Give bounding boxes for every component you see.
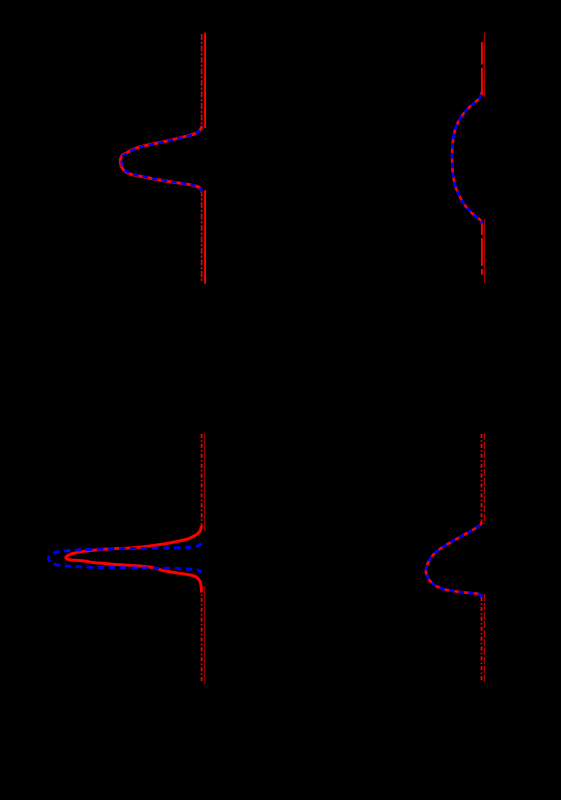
panel bottom-left: red dash-dot bright curve, left vertical lower segment [201,588,203,682]
panel top-left: red dash-dot curve, left vertical lower segment [201,191,203,283]
panel bottom-right: red solid bump curve [426,522,482,598]
panel bottom-left: red solid spike curve [66,526,202,593]
panel top-right: blue dashed bump curve [452,92,482,224]
panel bottom-right: red dash-dot bright curve, left vertical lower segment [481,597,483,682]
panel bottom-right: dark red thin dashed curve, right vertical lower segment [483,594,485,684]
panel top-right: red long-dash bright curve, left vertical lower segment [481,221,483,275]
panel top-right: dark red thin solid curve, right vertical lower segment [484,219,486,283]
panel bottom-right: red dash-dot bright curve, left vertical upper segment [481,434,483,522]
panel top-right: dark red thin solid curve, right vertical upper segment [484,33,486,98]
panel top-right: red solid bump curve [452,92,482,224]
panel top-right: red long-dash bright curve, left vertical upper segment [481,42,483,95]
panel bottom-right: blue dashed bump curve [426,522,482,598]
panel top-left: blue dashed bump curve [122,126,202,192]
panel top-left: red solid bump curve [120,126,202,193]
panel bottom-right: dark red thin dashed curve, right vertical upper segment [483,433,485,524]
panel top-left: red solid curve, right vertical lower segment [204,190,206,284]
panel top-left: red dash-dot curve, left vertical upper segment [201,34,203,128]
panel bottom-left: blue dashed spike curve [49,544,202,573]
panel top-left: red solid curve, right vertical upper segment [204,33,206,128]
panel bottom-left: red dash-dot bright curve, left vertical upper segment [201,434,203,526]
panel bottom-left: dark red thin curve, right vertical lower segment [204,586,206,684]
panel bottom-left: dark red thin curve, right vertical upper segment [204,433,206,531]
